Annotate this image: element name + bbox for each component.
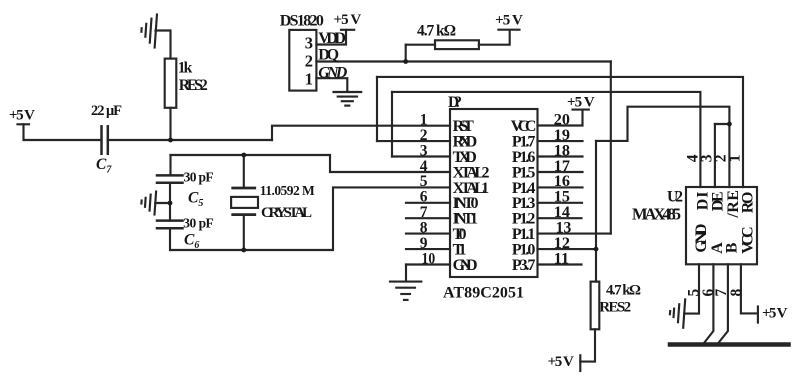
svg-text:22 μF: 22 μF [91, 103, 122, 119]
svg-text:1: 1 [727, 155, 744, 163]
svg-text:RES2: RES2 [599, 299, 631, 315]
svg-text:+5 V: +5 V [548, 354, 574, 370]
svg-text:GND: GND [453, 257, 478, 274]
svg-text:TXD: TXD [453, 149, 477, 166]
svg-text:+5 V: +5 V [334, 12, 362, 28]
svg-text:11.0592 M: 11.0592 M [260, 183, 315, 198]
svg-text:30 pF: 30 pF [184, 169, 214, 184]
svg-text:+5 V: +5 V [9, 107, 35, 123]
svg-text:MAX485: MAX485 [632, 204, 681, 223]
svg-text:DS1820: DS1820 [280, 12, 324, 29]
svg-text:U2: U2 [667, 189, 683, 206]
svg-text:8: 8 [728, 289, 745, 297]
svg-text:P1.1: P1.1 [512, 226, 536, 243]
svg-text:13: 13 [556, 219, 572, 236]
svg-text:+5 V: +5 V [762, 305, 788, 321]
svg-text:AT89C2051: AT89C2051 [443, 284, 524, 301]
svg-text:+5 V: +5 V [567, 94, 595, 110]
svg-text:3: 3 [305, 34, 313, 53]
svg-text:B: B [724, 242, 741, 253]
svg-text:CRYSTAL: CRYSTAL [261, 205, 312, 221]
svg-text:2: 2 [305, 52, 313, 71]
svg-text:3: 3 [420, 142, 428, 159]
svg-text:C5: C5 [188, 190, 203, 210]
svg-text:GND: GND [318, 65, 347, 82]
svg-text:DQ: DQ [318, 47, 339, 64]
svg-text:RO: RO [740, 192, 757, 214]
svg-text:P3.7: P3.7 [512, 257, 536, 274]
svg-text:T0: T0 [453, 226, 467, 243]
svg-text:C6: C6 [184, 232, 199, 252]
svg-text:11: 11 [554, 250, 569, 267]
svg-text:+5 V: +5 V [495, 12, 523, 28]
svg-text:4.7 kΩ: 4.7 kΩ [606, 282, 641, 298]
svg-text:C7: C7 [96, 156, 112, 176]
svg-text:8: 8 [420, 219, 428, 236]
svg-text:18: 18 [554, 142, 570, 159]
svg-text:VDD: VDD [318, 30, 346, 47]
svg-text:30 pF: 30 pF [183, 215, 214, 230]
svg-text:P1.6: P1.6 [512, 149, 536, 166]
svg-text:1: 1 [305, 70, 313, 89]
svg-text:VCC: VCC [740, 226, 757, 254]
svg-text:GND: GND [693, 224, 710, 253]
svg-text:1 k: 1 k [178, 60, 193, 77]
svg-text:4.7 kΩ: 4.7 kΩ [417, 23, 456, 40]
svg-text:10: 10 [422, 250, 436, 267]
svg-text:D?: D? [448, 94, 462, 111]
svg-text:RES2: RES2 [179, 77, 208, 94]
